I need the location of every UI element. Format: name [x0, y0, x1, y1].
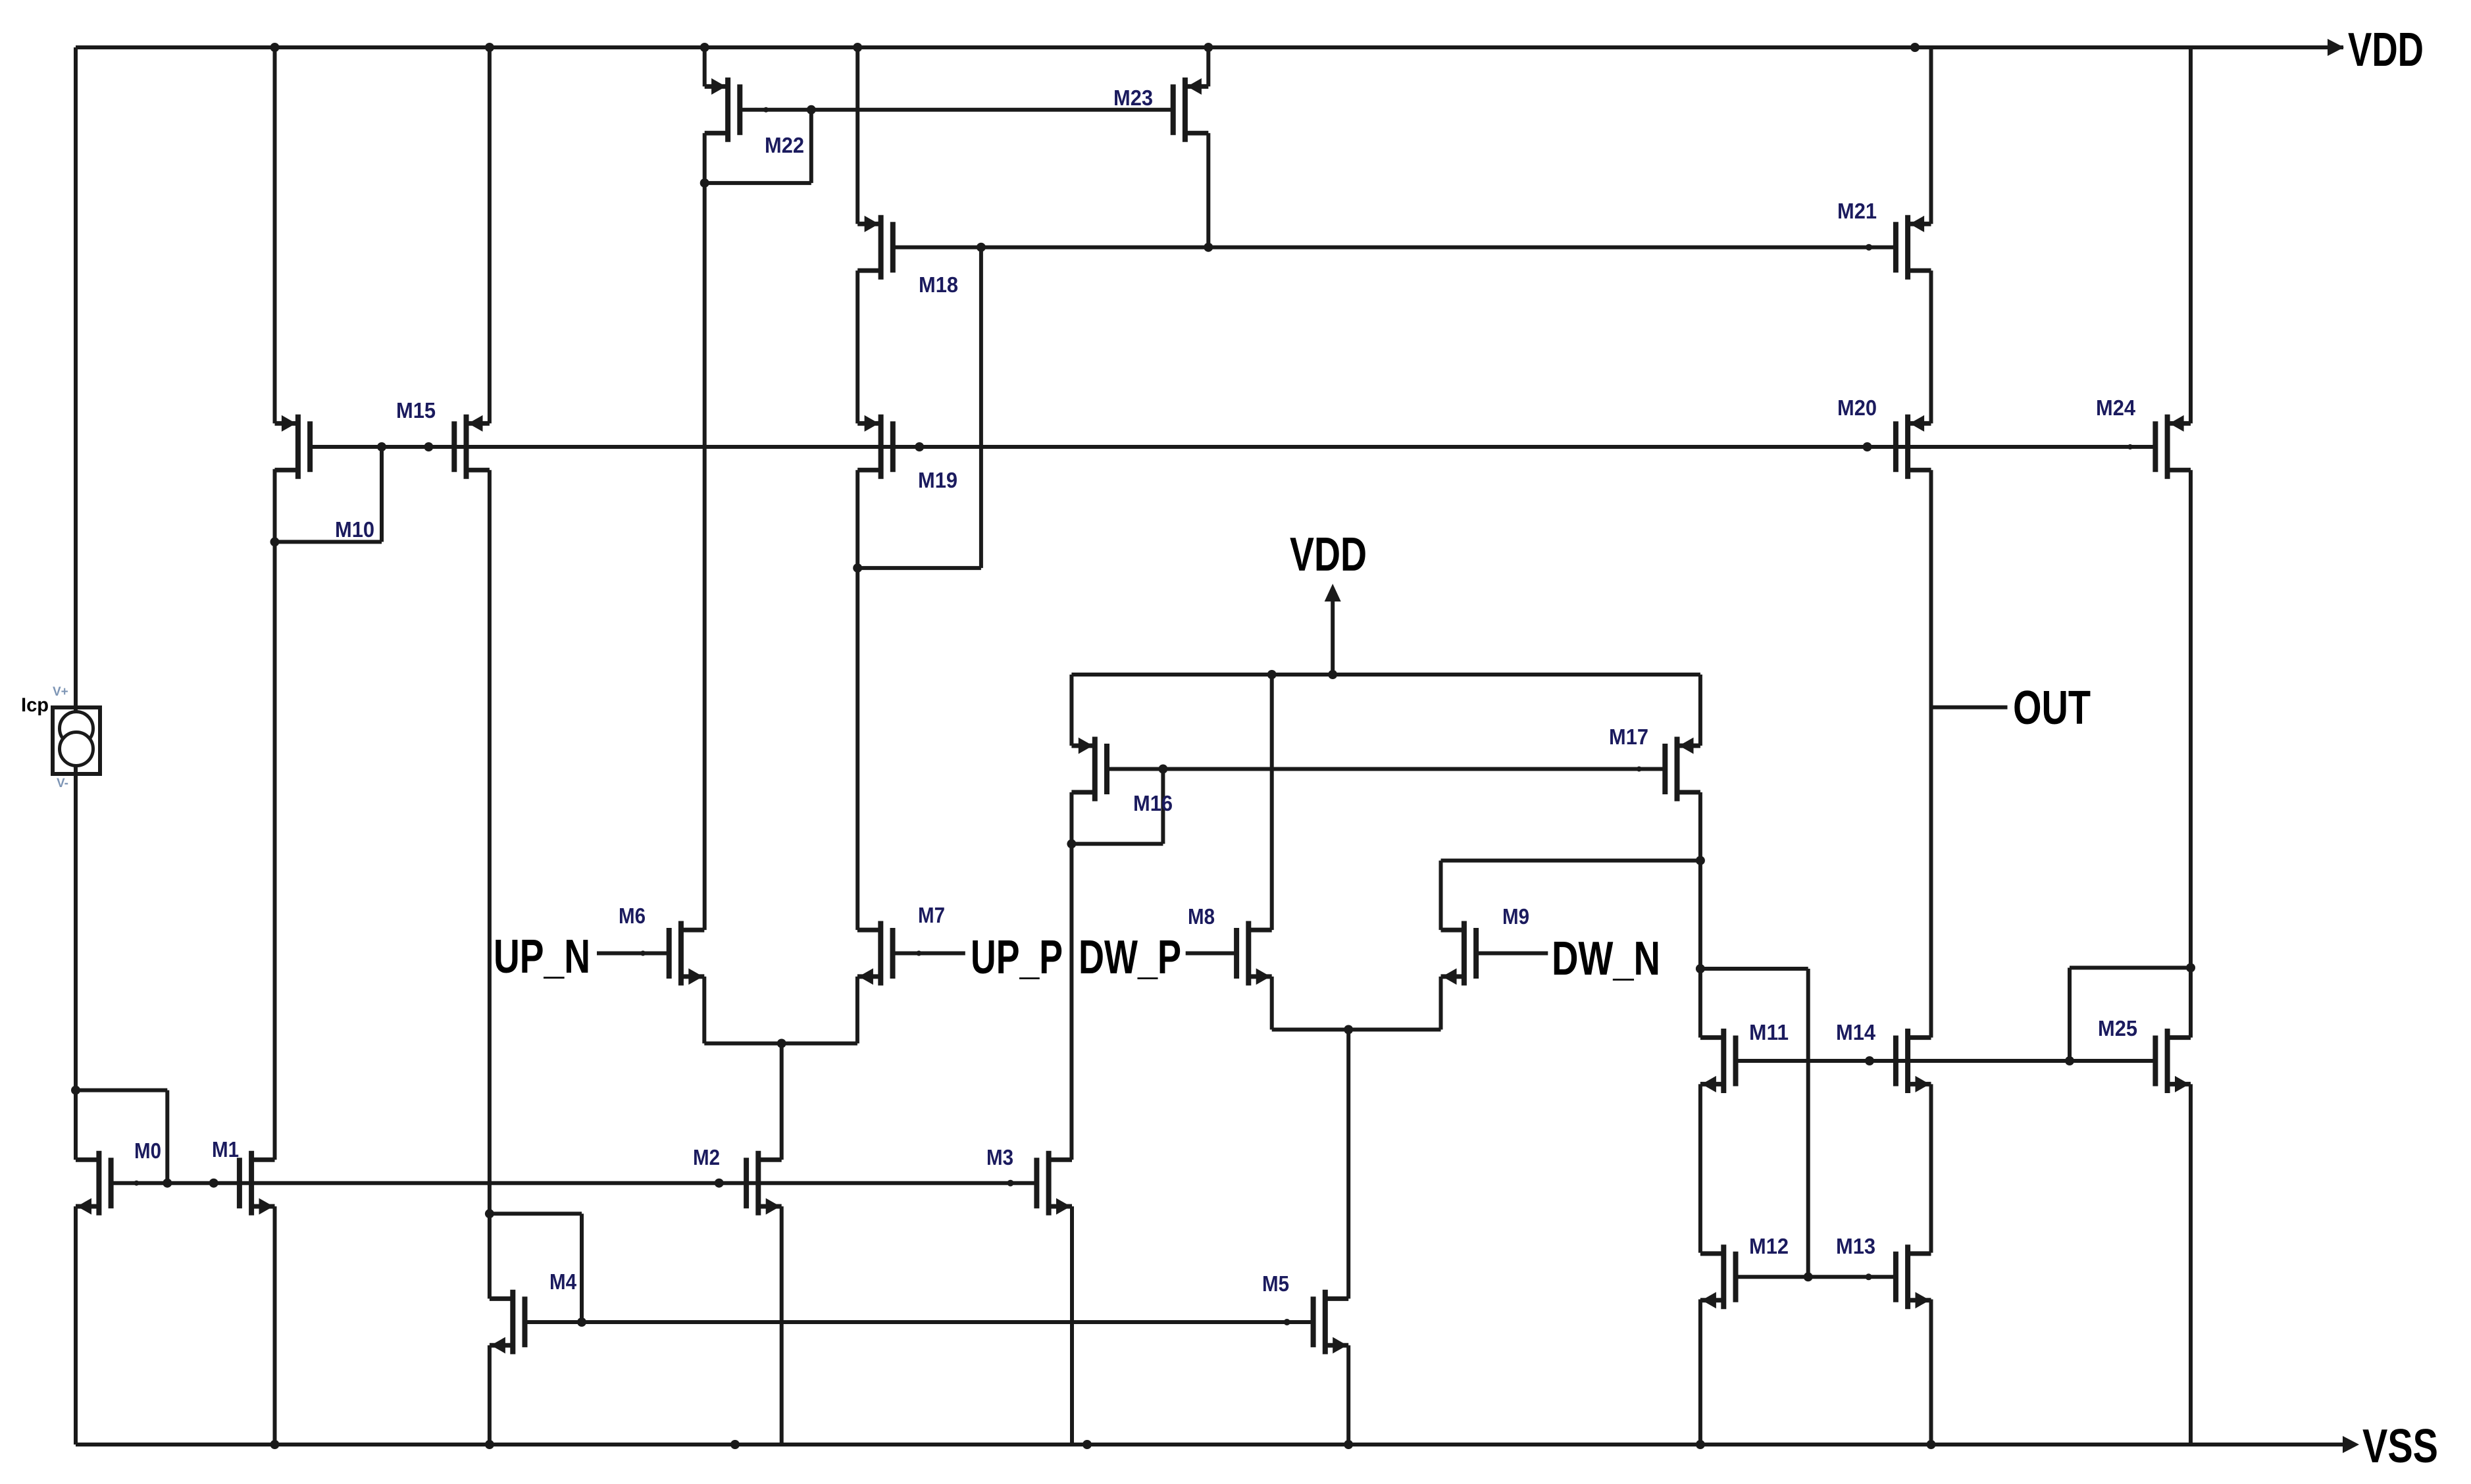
- wire M11/M14/M25 gate net: [1735, 1059, 2157, 1063]
- svg-text:VSS: VSS: [2362, 1420, 2438, 1473]
- wire M22 drain to M6 drain: [703, 133, 707, 930]
- junction dot: [1158, 765, 1167, 774]
- junction dot: [807, 105, 816, 115]
- wire M10 column from VDD: [273, 47, 277, 423]
- wire M1 source to VSS: [273, 1206, 277, 1445]
- wire M15 column from VDD: [488, 47, 492, 423]
- wire M0 gate tie horizontal: [76, 1088, 167, 1092]
- wire M6 source to tail: [702, 977, 706, 1044]
- wire M2 source to VSS: [780, 1206, 784, 1445]
- svg-text:M8: M8: [1188, 904, 1215, 929]
- svg-text:M14: M14: [1836, 1020, 1876, 1044]
- junction dot: [1696, 1440, 1705, 1449]
- transistor M23 (PMOS): [1173, 78, 1209, 142]
- wire M9 source to tail: [1439, 977, 1443, 1030]
- wire M12-M13 gate net: [1736, 1275, 1895, 1279]
- wire M5 source to VSS: [1346, 1345, 1350, 1445]
- wire M6/M7 source tail: [704, 1042, 857, 1046]
- VDD stub arrowhead: [1325, 584, 1341, 601]
- junction dot: [71, 1086, 80, 1095]
- junction dot: [485, 1209, 494, 1218]
- svg-text:DW_P: DW_P: [1079, 931, 1181, 984]
- wire M11 drain tie horizontal: [1700, 967, 1808, 971]
- transistor M24 (PMOS): [2155, 415, 2191, 479]
- svg-text:M24: M24: [2096, 396, 2136, 420]
- transistor M20 (PMOS): [1896, 415, 1931, 479]
- VSS rail arrowhead: [2343, 1436, 2359, 1453]
- wire M22-M23 gate net: [740, 108, 1173, 112]
- junction dot: [763, 107, 769, 113]
- wire M15 drain to M4 drain: [488, 470, 492, 1298]
- svg-text:OUT: OUT: [2013, 682, 2091, 734]
- VDD rail arrowhead: [2328, 39, 2344, 56]
- wire M22 gate tie horizontal: [705, 181, 811, 185]
- junction dot: [640, 951, 646, 956]
- wire M10 drain to M1 drain: [273, 469, 277, 1160]
- wire left rail upper (VDD to Icp): [74, 47, 78, 707]
- junction dot: [1284, 1319, 1290, 1325]
- wire M17 drain to M11 drain: [1698, 792, 1702, 1038]
- wire M11 gate tie vertical: [1806, 969, 1810, 1277]
- svg-text:M2: M2: [693, 1145, 720, 1169]
- junction dot: [2127, 444, 2133, 449]
- transistor M1 (NMOS): [240, 1151, 275, 1215]
- junction dot: [730, 1440, 740, 1449]
- junction dot: [1328, 670, 1337, 679]
- transistor M16 (PMOS): [1071, 737, 1107, 802]
- wire M16 source column: [1069, 675, 1073, 746]
- transistor M19 (PMOS): [857, 415, 893, 479]
- svg-text:M23: M23: [1113, 86, 1153, 110]
- svg-text:M16: M16: [1133, 791, 1173, 815]
- svg-text:M0: M0: [134, 1139, 161, 1163]
- junction dot: [1344, 1440, 1353, 1449]
- junction dot: [915, 442, 924, 451]
- wire M0-M3 gate bus: [111, 1181, 1036, 1185]
- wire OUT stub: [1931, 705, 2008, 709]
- svg-text:M17: M17: [1609, 725, 1648, 749]
- svg-text:M21: M21: [1837, 199, 1877, 223]
- wire M5 drain to diff tail: [1346, 1030, 1350, 1299]
- wire M17 source column: [1698, 675, 1702, 746]
- svg-text:M1: M1: [212, 1137, 239, 1162]
- wire M20 drain to M14 drain (OUT node): [1929, 470, 1933, 1037]
- wire M10 gate tie vertical: [380, 447, 384, 542]
- junction dot: [700, 178, 709, 188]
- junction dot: [377, 442, 386, 451]
- transistor M8 (NMOS): [1236, 921, 1272, 986]
- junction dot: [916, 951, 921, 956]
- wire M24 column from VDD: [2189, 47, 2193, 423]
- svg-text:M22: M22: [765, 133, 804, 157]
- transistor M9 (NMOS): [1441, 921, 1477, 986]
- svg-text:M7: M7: [918, 903, 945, 927]
- junction dot: [1204, 43, 1213, 52]
- VDD stub stem: [1331, 600, 1335, 675]
- wire M23 drain down: [1206, 133, 1210, 247]
- junction dot: [2186, 963, 2195, 973]
- junction dot: [1344, 1025, 1353, 1035]
- wire M18/M21 gate net (M23 drain): [893, 245, 1897, 249]
- svg-text:M15: M15: [396, 398, 436, 422]
- wire M23 column from VDD: [1206, 47, 1210, 86]
- wire M19 drain to M7 drain: [855, 470, 859, 930]
- svg-text:M25: M25: [2098, 1016, 2137, 1040]
- svg-text:M12: M12: [1749, 1234, 1789, 1258]
- junction dot: [163, 1179, 172, 1188]
- wire M13 source to VSS: [1929, 1299, 1933, 1445]
- junction dot: [1910, 43, 1920, 52]
- wire M4 gate tie horizontal: [490, 1212, 582, 1215]
- wire M25 gate tie vertical: [2068, 968, 2072, 1062]
- transistor M25 (NMOS): [2155, 1029, 2191, 1093]
- wire M21 drain to M20 source: [1929, 270, 1933, 423]
- transistor M0 (NMOS): [76, 1151, 111, 1215]
- wire M8 source to tail: [1270, 977, 1274, 1030]
- svg-text:VDD: VDD: [2348, 24, 2424, 76]
- transistor M12 (NMOS): [1700, 1244, 1736, 1309]
- wire VDD rail: [76, 45, 2343, 49]
- transistor M7 (NMOS): [857, 921, 893, 986]
- transistor M17 (PMOS): [1665, 737, 1700, 802]
- junction dot: [577, 1318, 586, 1327]
- junction dot: [424, 442, 433, 451]
- junction dot: [1866, 244, 1872, 251]
- svg-text:Icp: Icp: [21, 694, 49, 716]
- wire M18 drain to M19 source: [855, 270, 859, 423]
- junction dot: [270, 537, 280, 546]
- junction dot: [1083, 1440, 1092, 1449]
- wire local VDD rail of OTA: [1071, 673, 1700, 677]
- wire common gate bus (M10/M15/M19/M20/M24): [310, 445, 2156, 449]
- junction dot: [270, 1440, 280, 1449]
- wire M25 drain tie horizontal: [2070, 966, 2191, 970]
- transistor M6 (NMOS): [669, 921, 705, 986]
- wire M19 drain tie horizontal: [857, 566, 981, 570]
- wire M18 column from VDD: [855, 47, 859, 224]
- wire M11 source to M12 drain: [1698, 1084, 1702, 1252]
- svg-text:UP_P: UP_P: [971, 931, 1063, 984]
- junction dot: [715, 1179, 724, 1188]
- junction dot: [853, 43, 862, 52]
- wire M16 drain to M3 drain: [1069, 792, 1073, 1160]
- wire M21 column from VDD: [1929, 47, 1933, 224]
- junction dot: [134, 1181, 139, 1186]
- transistor M5 (NMOS): [1313, 1290, 1349, 1354]
- transistor M3 (NMOS): [1036, 1151, 1072, 1215]
- transistor M15 (PMOS): [454, 415, 490, 479]
- junction dot: [1866, 1273, 1872, 1280]
- transistor M22 (PMOS): [705, 78, 740, 142]
- svg-text:UP_N: UP_N: [494, 931, 590, 983]
- wire M16 gate tie horizontal: [1071, 842, 1163, 846]
- wire M22 column from VDD: [703, 47, 707, 86]
- transistor M13 (NMOS): [1896, 1244, 1931, 1309]
- junction dot: [1007, 1180, 1014, 1187]
- junction dot: [1865, 1056, 1874, 1065]
- junction dot: [209, 1179, 218, 1188]
- wire M7 source to tail: [855, 977, 859, 1044]
- wire M12 source to VSS: [1698, 1299, 1702, 1445]
- transistor M4 (NMOS): [490, 1290, 525, 1354]
- junction dot: [977, 243, 986, 252]
- svg-text:M5: M5: [1262, 1271, 1289, 1296]
- wire M8 drain column: [1270, 675, 1274, 930]
- wire M24 drain to M25 drain: [2189, 470, 2193, 1037]
- junction dot: [1637, 767, 1642, 772]
- junction dot: [1927, 1440, 1936, 1449]
- junction dot: [1696, 856, 1705, 865]
- svg-text:M10: M10: [335, 517, 374, 542]
- wire M16-M17 gate net: [1107, 767, 1665, 771]
- svg-text:M11: M11: [1749, 1020, 1789, 1044]
- wire net18 vertical: [979, 247, 983, 568]
- wire M14 source to M13 drain: [1929, 1084, 1933, 1252]
- junction dot: [485, 43, 494, 52]
- transistor M18 (PMOS): [857, 215, 893, 280]
- wire M8 gate lead: [1186, 952, 1236, 956]
- junction dot: [1067, 839, 1076, 848]
- transistor M14 (NMOS): [1896, 1029, 1931, 1093]
- wire M25 source to VSS: [2189, 1084, 2193, 1445]
- svg-text:M19: M19: [918, 468, 957, 492]
- junction dot: [270, 43, 280, 52]
- svg-text:M4: M4: [549, 1269, 577, 1294]
- junction dot: [1863, 442, 1872, 451]
- wire M8/M9 source tail: [1272, 1028, 1441, 1032]
- wire M16 gate tie vertical: [1161, 769, 1165, 844]
- transistor M11 (NMOS): [1700, 1029, 1736, 1093]
- svg-text:M20: M20: [1837, 396, 1877, 420]
- wire M6 gate lead: [597, 952, 670, 956]
- svg-text:V+: V+: [53, 685, 68, 699]
- wire M2 drain to diff tail: [780, 1044, 784, 1160]
- transistor M2 (NMOS): [746, 1151, 782, 1215]
- junction dot: [485, 1440, 494, 1449]
- junction dot: [2065, 1056, 2074, 1065]
- wire M9 gate lead: [1476, 952, 1548, 956]
- junction dot: [700, 43, 709, 52]
- junction dot: [1204, 243, 1213, 252]
- wire M4-M5 gate net: [524, 1320, 1313, 1324]
- svg-text:V-: V-: [57, 777, 68, 790]
- svg-text:VDD: VDD: [1290, 528, 1367, 581]
- svg-text:M13: M13: [1836, 1234, 1875, 1258]
- junction dot: [1804, 1272, 1813, 1281]
- current source Icp circles: [60, 712, 93, 746]
- transistor M21 (PMOS): [1896, 215, 1931, 280]
- svg-text:DW_N: DW_N: [1552, 933, 1660, 985]
- svg-text:M18: M18: [919, 272, 958, 297]
- wire left rail lower (Icp to M0/VSS): [74, 707, 78, 1160]
- current source Icp box: [53, 707, 100, 774]
- wire M22 gate tie vertical: [809, 110, 813, 183]
- svg-text:M9: M9: [1502, 904, 1529, 929]
- junction dot: [853, 563, 862, 573]
- transistor M10 (PMOS): [275, 415, 311, 479]
- wire M0 gate tie vertical: [165, 1090, 169, 1183]
- wire M4 gate tie vertical: [580, 1214, 584, 1322]
- junction dot: [777, 1039, 786, 1048]
- wire M10 gate tie horizontal: [275, 540, 382, 544]
- junction dot: [1696, 964, 1705, 973]
- junction dot: [1267, 670, 1277, 679]
- wire VSS rail: [76, 1443, 2343, 1446]
- wire M9 drain vertical: [1439, 861, 1443, 931]
- wire M17 drain to M9 drain: [1441, 859, 1700, 863]
- svg-text:M3: M3: [986, 1145, 1013, 1169]
- wire M3 source to VSS: [1070, 1206, 1074, 1445]
- wire M7 gate lead: [893, 952, 965, 956]
- svg-text:M6: M6: [619, 904, 646, 928]
- wire M4 source to VSS: [488, 1345, 492, 1445]
